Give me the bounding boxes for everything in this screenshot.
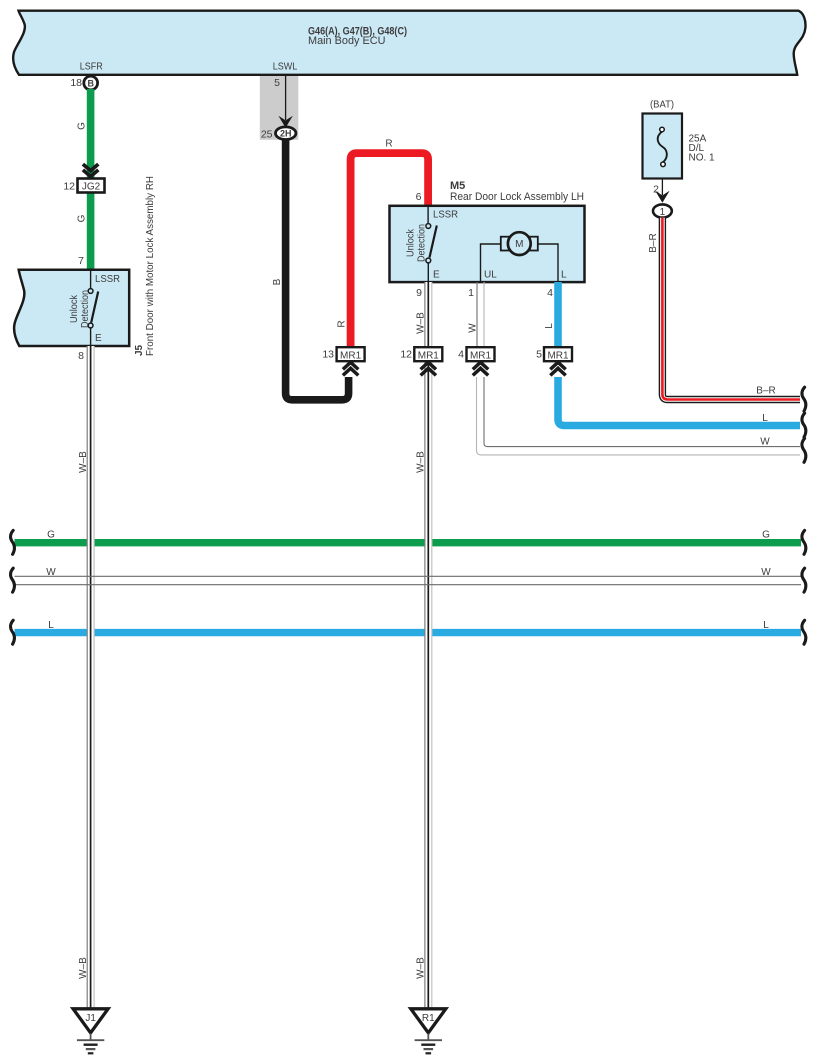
svg-text:12: 12	[400, 349, 412, 361]
ground J1 bar 2	[84, 1043, 98, 1045]
svg-text:Main Body ECU: Main Body ECU	[308, 35, 386, 47]
svg-text:5: 5	[536, 349, 542, 361]
M5 box Rear Door Lock Assembly LH	[390, 206, 585, 282]
ground R1 triangle	[411, 1009, 446, 1033]
svg-text:UL: UL	[484, 270, 497, 281]
switch contact upper circle (M5)	[426, 224, 431, 229]
svg-text:R: R	[385, 139, 392, 150]
svg-text:LSSR: LSSR	[433, 210, 458, 221]
svg-text:1: 1	[660, 207, 666, 218]
svg-text:W–B: W–B	[416, 451, 427, 473]
switch lead-in line (left box)	[90, 269, 92, 289]
fuse element curve	[658, 132, 667, 163]
switch blade (left box)	[91, 292, 98, 323]
svg-text:L: L	[48, 620, 54, 631]
svg-text:W: W	[468, 323, 479, 333]
svg-text:Unlock: Unlock	[406, 228, 417, 257]
MR1 4 box	[467, 347, 495, 361]
MR1 4 chevron arrow up	[473, 362, 488, 375]
Main Body ECU box	[13, 11, 805, 75]
svg-text:6: 6	[416, 191, 422, 203]
pin 18 connector circle B	[84, 76, 98, 90]
svg-text:LSSR: LSSR	[95, 274, 120, 285]
motor M circle	[508, 232, 531, 255]
wire W branch (MR1 4 down then right) inner line	[484, 377, 800, 447]
svg-text:4: 4	[458, 349, 464, 361]
svg-text:MR1: MR1	[547, 350, 569, 361]
svg-text:LSFR: LSFR	[80, 62, 103, 73]
svg-text:9: 9	[416, 287, 422, 299]
svg-text:8: 8	[78, 350, 84, 362]
svg-text:Rear Door Lock Assembly LH: Rear Door Lock Assembly LH	[450, 191, 584, 203]
MR1 12 box	[414, 347, 442, 361]
svg-text:5: 5	[274, 77, 280, 89]
svg-text:25: 25	[261, 129, 273, 141]
wire thin from fuse down	[661, 179, 663, 196]
svg-text:B: B	[87, 78, 94, 88]
wire L branch (MR1 5 down then right)	[558, 377, 800, 426]
fuse terminal circle top	[660, 127, 665, 132]
svg-text:G: G	[77, 122, 88, 130]
svg-text:12: 12	[63, 181, 75, 193]
svg-text:R: R	[337, 320, 348, 327]
fuse box 25A D/L NO.1	[643, 114, 683, 179]
bus W horizontal (two lines)	[15, 576, 802, 584]
wire B black (2H down, right, up to MR1 13)	[286, 140, 349, 400]
wire B-R (battery down then right to edge)	[662, 218, 800, 400]
svg-text:G: G	[762, 530, 770, 541]
svg-text:J1: J1	[85, 1013, 96, 1024]
arrow double chevron down on green wire	[83, 164, 98, 176]
ground J1 triangle	[73, 1009, 108, 1033]
svg-text:W: W	[761, 567, 771, 578]
break symbol L right	[802, 620, 806, 644]
svg-text:2H: 2H	[280, 129, 292, 139]
svg-text:Detection: Detection	[417, 224, 428, 262]
Front Door with Motor Lock Assembly RH box	[14, 270, 129, 346]
break symbol L left	[11, 620, 15, 644]
break symbol W branch right	[802, 438, 806, 462]
svg-text:MR1: MR1	[340, 350, 362, 361]
motor wire left (M5)	[481, 244, 503, 282]
svg-text:18: 18	[70, 77, 82, 89]
ground J1 bar 1	[77, 1039, 104, 1041]
svg-text:Front Door with Motor Lock Ass: Front Door with Motor Lock Assembly RH	[145, 176, 156, 356]
connector oval 1	[653, 204, 672, 217]
svg-text:LSWL: LSWL	[273, 62, 298, 73]
switch lower lead line (left box)	[90, 328, 92, 346]
wire green LSFR vertical	[87, 89, 95, 269]
svg-text:L: L	[762, 413, 768, 424]
svg-text:NO. 1: NO. 1	[689, 153, 716, 164]
switch contact upper circle (left box)	[88, 289, 93, 294]
svg-text:L: L	[544, 323, 555, 329]
wire W-B left vertical (pin 8 to ground J1)	[87, 346, 94, 1009]
switch blade (M5)	[430, 226, 437, 258]
ground J1 stem	[90, 1034, 92, 1041]
bus wire G horizontal	[15, 539, 802, 546]
svg-text:B: B	[272, 278, 283, 285]
junction oval 2H	[276, 127, 296, 140]
gray band LSWL	[260, 76, 299, 140]
ground R1 bar 3	[424, 1048, 434, 1050]
wire W vertical (M5 pin 1 to MR1 4)	[477, 282, 484, 347]
svg-text:W–B: W–B	[416, 957, 427, 979]
svg-text:MR1: MR1	[418, 350, 440, 361]
svg-text:E: E	[95, 333, 102, 344]
motor left brush tab	[501, 237, 509, 251]
svg-text:W–B: W–B	[78, 451, 89, 473]
svg-text:W–B: W–B	[416, 312, 427, 334]
MR1 5 chevron arrow up	[550, 362, 565, 375]
svg-text:7: 7	[78, 255, 84, 267]
wire W branch outer line	[477, 377, 801, 455]
wire W-B middle vertical (M5 pin 9 to ground R1)	[425, 282, 432, 1009]
ground R1 bar 2	[421, 1043, 435, 1045]
svg-text:(BAT): (BAT)	[650, 100, 674, 111]
svg-text:G: G	[77, 214, 88, 222]
svg-text:B–R: B–R	[648, 233, 659, 252]
motor right brush tab	[530, 237, 538, 251]
break symbol G left	[11, 530, 15, 554]
wire thin LSWL vertical in gray band	[285, 76, 287, 120]
svg-text:MR1: MR1	[470, 350, 492, 361]
ground J1 bar 3	[86, 1048, 96, 1050]
break symbol L branch right	[802, 413, 806, 437]
bus wire L horizontal	[15, 629, 802, 636]
svg-text:1: 1	[468, 287, 474, 299]
svg-text:G: G	[47, 530, 55, 541]
MR1 13 box	[337, 347, 365, 361]
arrow solid down to 2H	[278, 116, 292, 128]
svg-text:Unlock: Unlock	[69, 294, 80, 323]
arrow solid down to oval 1	[655, 191, 669, 203]
ground R1 stem	[427, 1034, 429, 1041]
switch lead-in line (M5)	[427, 206, 429, 224]
switch contact lower circle (left box)	[88, 323, 93, 328]
svg-text:R1: R1	[422, 1013, 435, 1024]
svg-text:JG2: JG2	[82, 182, 101, 193]
svg-text:W: W	[760, 437, 770, 448]
wire L vertical (M5 pin 4 to MR1 5)	[554, 282, 562, 347]
svg-text:Detection: Detection	[80, 290, 91, 328]
svg-text:M: M	[515, 239, 523, 250]
svg-text:W–B: W–B	[78, 957, 89, 979]
svg-text:E: E	[433, 270, 440, 281]
fuse terminal circle bottom	[661, 162, 666, 167]
junction box JG2	[78, 179, 105, 193]
svg-text:L: L	[561, 270, 567, 281]
MR1 5 box	[544, 347, 572, 361]
svg-text:13: 13	[322, 349, 334, 361]
ground J1 bar 4	[88, 1052, 94, 1054]
svg-text:L: L	[763, 620, 769, 631]
MR1 12 chevron arrow up	[421, 362, 436, 375]
svg-text:J5: J5	[134, 344, 145, 356]
switch lower lead line (M5)	[427, 263, 429, 282]
svg-text:B–R: B–R	[756, 386, 775, 397]
break symbol W right	[802, 568, 806, 592]
wire R red (MR1 13 up, right, down to M5 pin 6)	[351, 153, 429, 347]
MR1 13 chevron arrow up	[343, 362, 358, 375]
svg-text:4: 4	[547, 287, 553, 299]
break symbol W left	[11, 568, 15, 592]
ground R1 bar 1	[415, 1039, 442, 1041]
svg-text:W: W	[46, 567, 56, 578]
ground R1 bar 4	[426, 1052, 432, 1054]
motor wire right (M5)	[537, 244, 558, 282]
break symbol G right	[802, 530, 806, 554]
switch contact lower circle (M5)	[426, 258, 431, 263]
break symbol B-R right	[802, 387, 806, 411]
